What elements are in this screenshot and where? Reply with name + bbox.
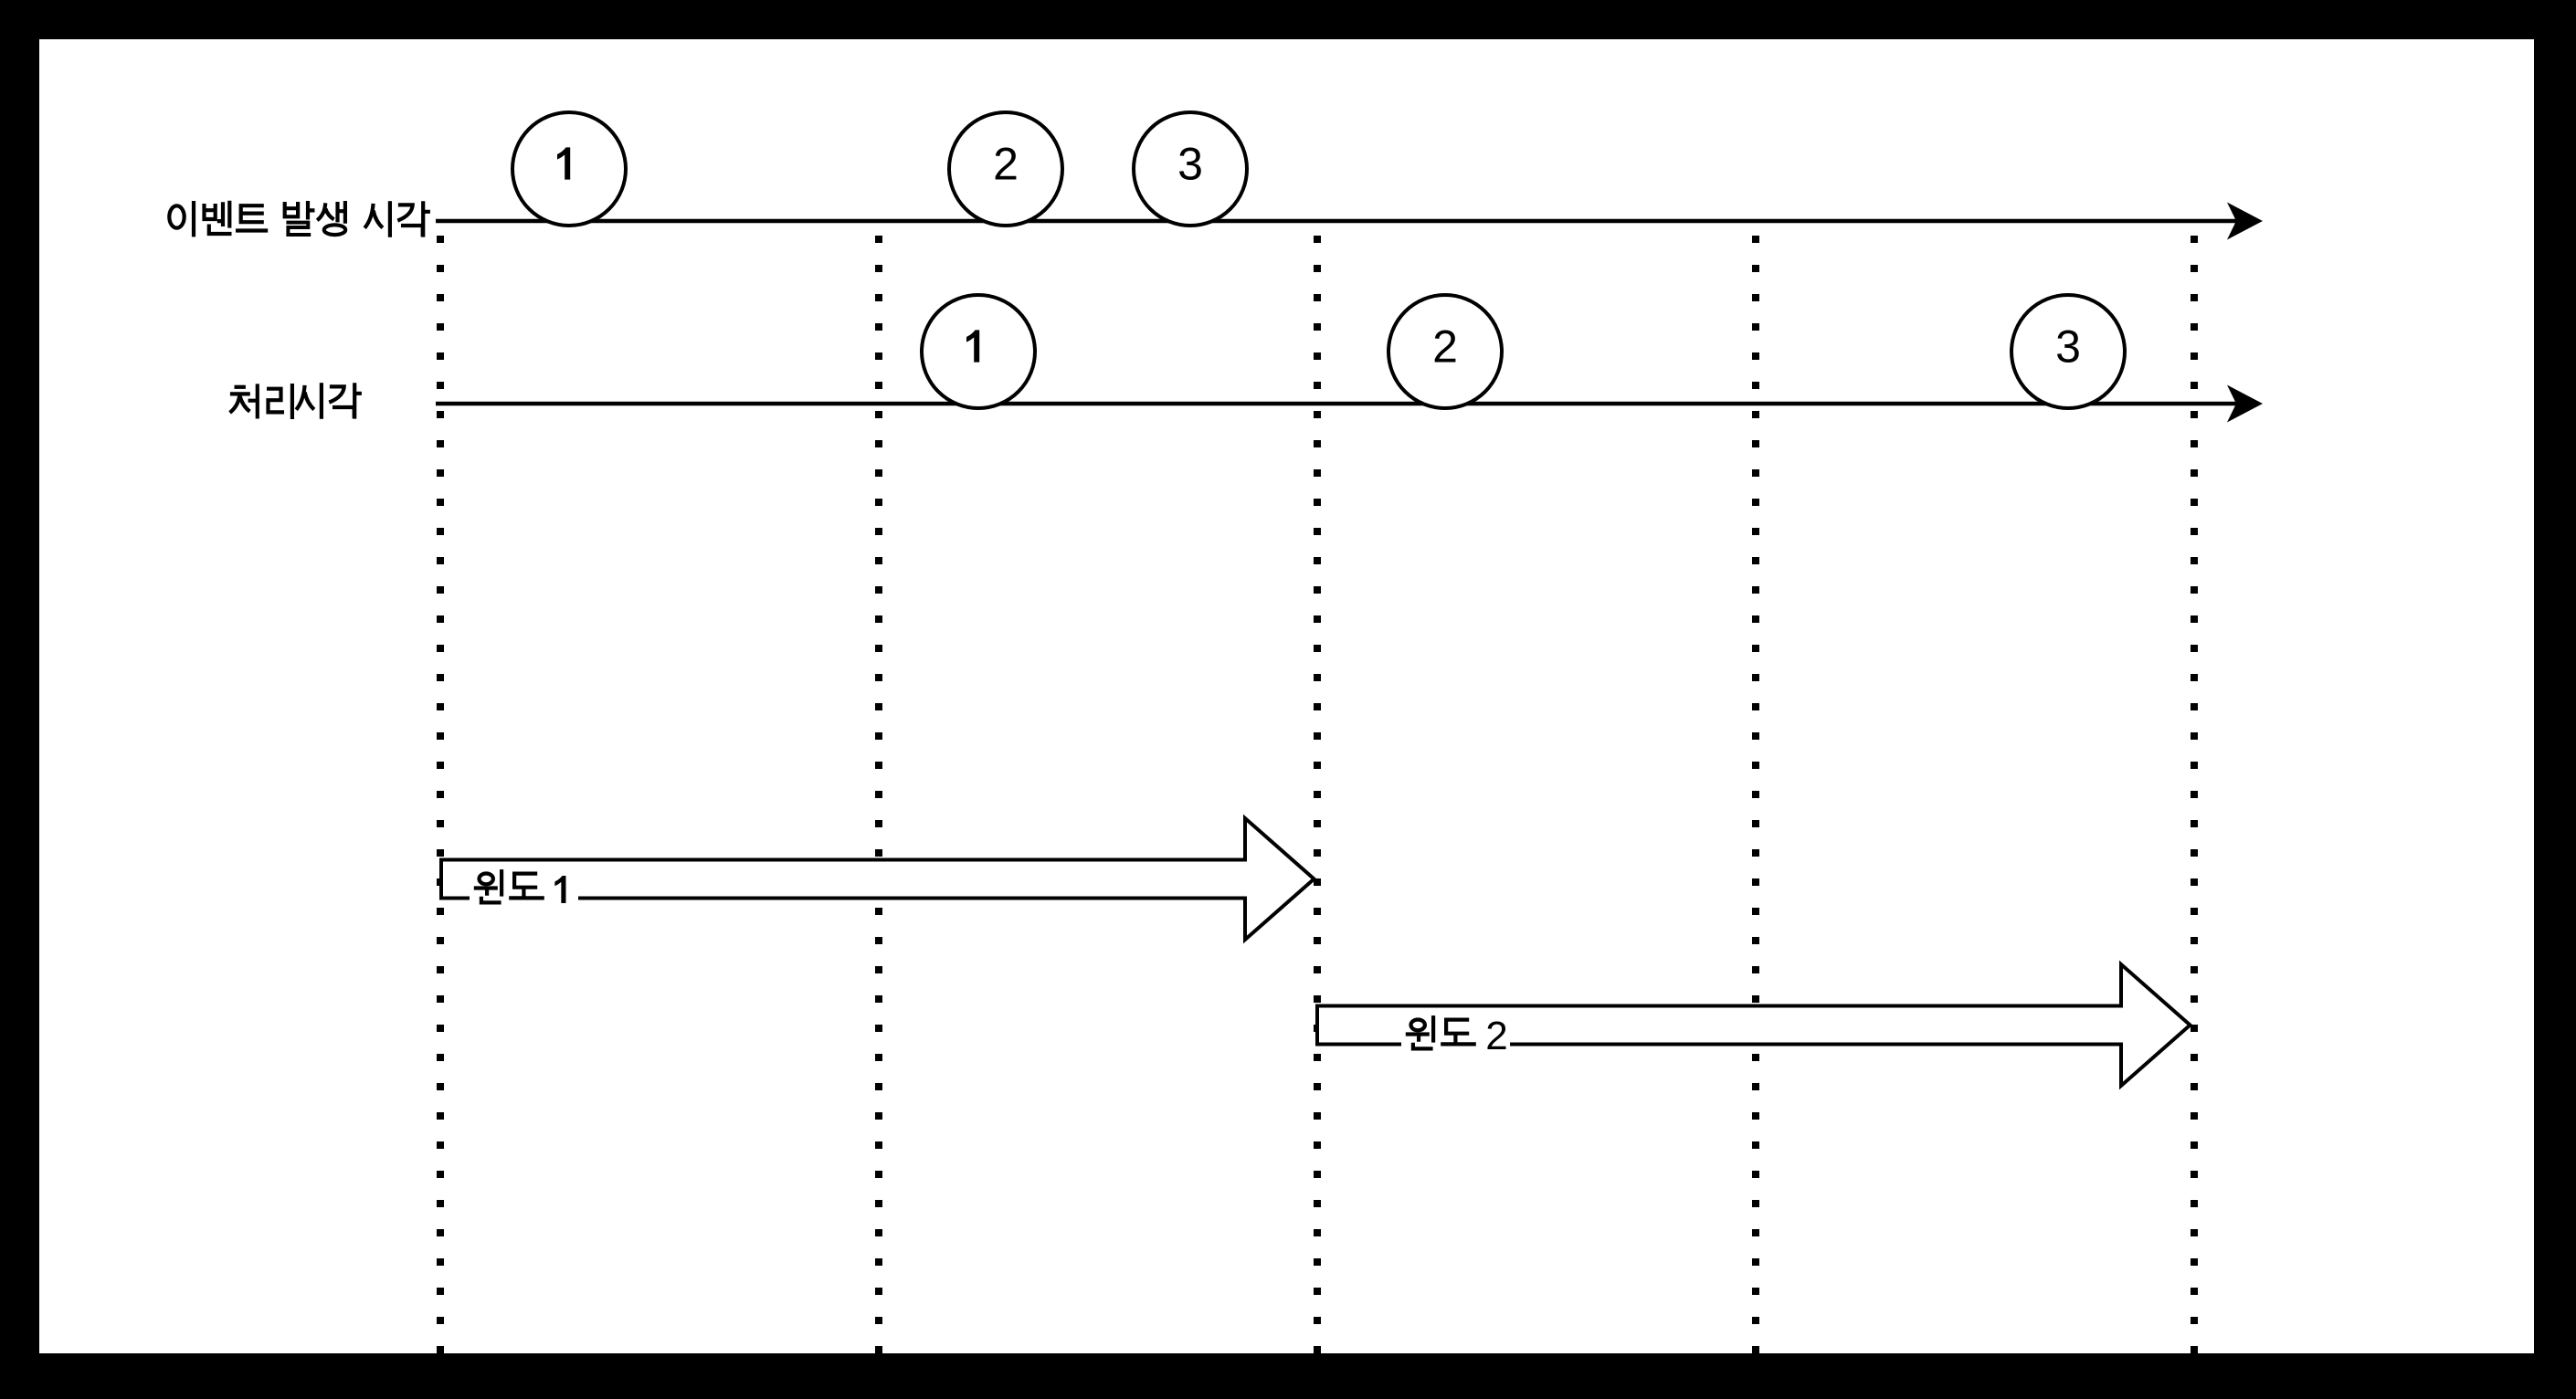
label: 윈도 1 (drawn as paths): [474, 869, 544, 902]
svg-text:2: 2: [1432, 321, 1458, 373]
svg-text:2: 2: [1485, 1014, 1507, 1058]
각: [329, 386, 343, 402]
리: [267, 389, 284, 413]
circle 3 on processing axis: [2011, 295, 2125, 408]
window 2 label knockout: [1401, 1014, 1510, 1057]
svg-text:2: 2: [993, 139, 1019, 190]
벤: [202, 204, 216, 221]
block arrow window 1: [441, 818, 1314, 940]
이: [169, 205, 184, 227]
circle 1 on event axis: [512, 112, 626, 226]
dotted grid line 4: [1752, 236, 1759, 1353]
트: [236, 205, 268, 230]
svg-text:3: 3: [2055, 321, 2081, 373]
시: [364, 204, 373, 228]
생: [317, 203, 325, 220]
윈: [480, 874, 493, 885]
dotted grid line 3: [1314, 236, 1321, 1353]
event-time axis line: [436, 219, 2238, 224]
label: 처리시각 (drawn as paths): [230, 383, 362, 419]
circle 2 on event axis: [949, 112, 1062, 226]
processing-time axis line: [436, 402, 2238, 406]
dotted grid line 2: [875, 236, 882, 1353]
시: [296, 385, 304, 410]
circle 3 on event axis: [1134, 112, 1247, 226]
event-time axis arrowhead: [2227, 203, 2263, 240]
dotted grid line 1: [437, 236, 444, 1353]
svg-text:3: 3: [1177, 139, 1203, 190]
processing-time axis arrowhead: [2227, 385, 2263, 423]
circle 2 on processing axis: [1388, 295, 1502, 408]
circle 1 on processing axis: [922, 295, 1035, 408]
dotted grid line 5: [2191, 236, 2198, 1353]
도: [514, 874, 537, 888]
label: 윈도 2 (reuse of 윈도 paths): [1406, 1015, 1476, 1048]
각: [397, 205, 412, 220]
발: [283, 202, 301, 218]
label: 이벤트 발생 시각 (drawn as paths): [169, 201, 430, 237]
처: [235, 385, 246, 389]
window 1 label knockout: [470, 868, 578, 911]
block arrow window 2: [1317, 964, 2191, 1086]
